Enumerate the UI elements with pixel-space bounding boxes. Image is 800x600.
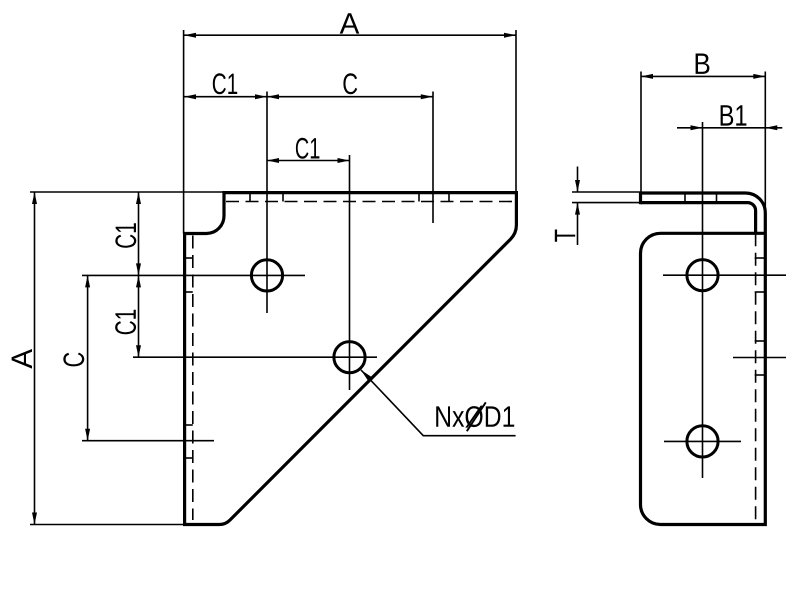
- extension line right of C dim: [432, 92, 434, 224]
- dimension T: [577, 167, 579, 193]
- leader NxOD1: [361, 370, 516, 436]
- label A (top dimension): [340, 13, 360, 33]
- flange inner (bottom) line with inner bend radius: [641, 203, 756, 234]
- extension line left of A dim: [183, 30, 185, 234]
- label C (top): [343, 73, 357, 94]
- bracket outline (front view gusset plate): [185, 193, 517, 525]
- label C1 (lower left, rotated): [115, 310, 136, 334]
- dimension C top: [267, 96, 433, 98]
- dimension A left: [34, 192, 36, 525]
- extension line bottom edge to left: [30, 524, 185, 526]
- label NxOD1 (hole callout): [436, 406, 514, 428]
- dimension C1 top: [184, 96, 267, 98]
- dimension B1: [677, 127, 782, 129]
- label B1: [721, 105, 747, 125]
- extension line right of A dim: [515, 30, 517, 193]
- hole 1 side: [687, 260, 718, 291]
- label C (left, rotated): [63, 353, 84, 367]
- extension lines B: [640, 72, 642, 193]
- dimension C1 upper-left: [138, 192, 140, 275]
- extension line C bottom: [82, 440, 214, 442]
- label B: [696, 54, 710, 74]
- hole 2 side: [687, 426, 718, 457]
- dimension C left: [87, 275, 89, 440]
- bend zone ticks top edge: [250, 193, 449, 202]
- hole 1 front: [251, 260, 282, 291]
- bend ticks on right strip: [755, 258, 766, 375]
- dimension A top: [184, 34, 516, 36]
- dimension C1 middle: [267, 160, 350, 162]
- side view outline: [641, 193, 766, 525]
- extension lines T: [572, 191, 641, 193]
- hidden inner surface (dashed): [755, 233, 757, 524]
- bend zone ticks left edge: [185, 258, 193, 458]
- label C1 (middle): [296, 138, 320, 159]
- diameter-symbol slash overshoot: [467, 402, 486, 431]
- label A (left, rotated): [12, 349, 32, 369]
- bend line left (dashed): [192, 236, 194, 521]
- label C1 (upper left, rotated): [115, 223, 136, 247]
- bend ticks on flange: [685, 193, 717, 203]
- bend line top (dashed): [226, 201, 515, 203]
- dimension C1 lower-left: [138, 275, 140, 357]
- label T (thickness, rotated): [555, 230, 575, 242]
- hole 2 front: [334, 342, 365, 373]
- label C1 (top): [213, 73, 237, 94]
- flange left end cap: [639, 192, 642, 205]
- extension line top edge to left: [30, 191, 224, 193]
- centerlines side: [663, 122, 786, 478]
- centerlines front: [82, 92, 377, 391]
- dimension B: [641, 75, 765, 77]
